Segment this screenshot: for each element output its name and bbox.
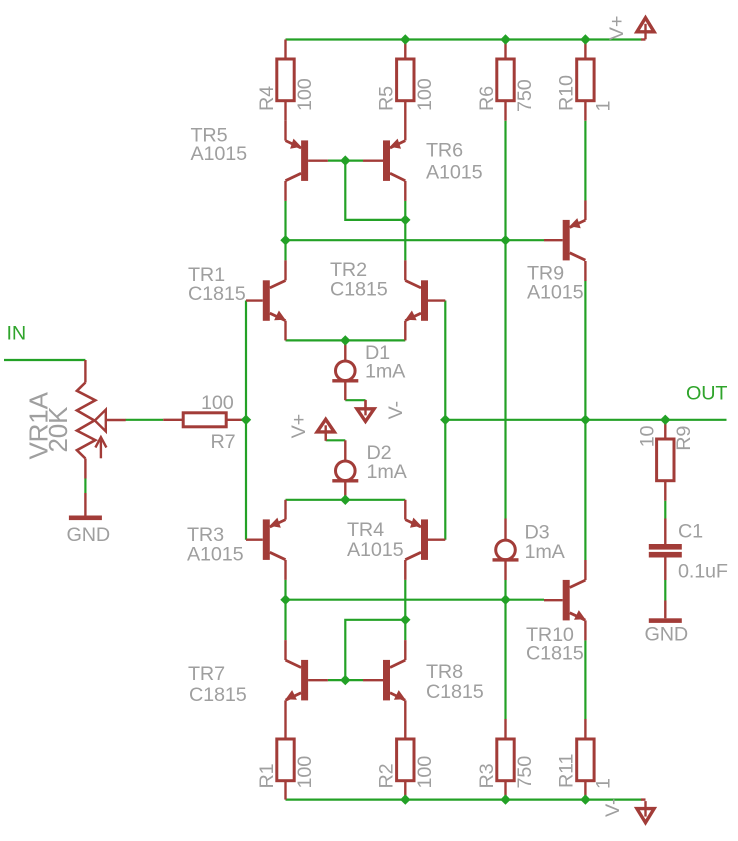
wire TR8 pins: [404, 640, 406, 739]
svg-text:R4: R4: [256, 86, 278, 111]
wire node mirror1 out to TR9 base: [286, 239, 545, 241]
potentiometer VR1A: [77, 383, 107, 459]
wire V+ mid pin: [325, 432, 327, 441]
wire R10 to TR9 emitter: [584, 121, 586, 201]
wire C1 pins: [664, 519, 666, 581]
svg-text:R3: R3: [476, 763, 498, 788]
wire TR3 TR4 emitter rail: [286, 499, 406, 501]
node D3 TR10 base: [500, 595, 510, 605]
transistor TR8: [363, 660, 405, 701]
wire V- bottom pin: [641, 798, 646, 800]
svg-text:C1815: C1815: [189, 684, 247, 706]
resistor R2: [397, 739, 414, 781]
wire R3 pins: [504, 719, 506, 800]
power V- bottom: [637, 801, 654, 823]
node OUT collectors: [580, 415, 590, 425]
wire GND right pin: [664, 601, 666, 619]
transistor TR5: [286, 139, 328, 181]
transistor TR2: [405, 280, 445, 321]
resistor R5: [397, 59, 414, 101]
node mirror2 output: [280, 595, 290, 605]
svg-text:C1815: C1815: [526, 643, 584, 665]
wire R2 bottom pin: [404, 781, 406, 800]
wire D2 pins: [344, 440, 346, 500]
wire base tie to TR8 collector: [345, 620, 405, 680]
wire TR9 collector to OUT to TR10 collector: [584, 281, 586, 560]
wire TR10 emitter to R11: [584, 640, 586, 719]
svg-text:R11: R11: [556, 753, 578, 788]
resistor R3: [497, 739, 514, 781]
wire VR1A wiper pin: [106, 419, 126, 421]
node V- R3: [500, 794, 510, 804]
power V+ mid: [317, 419, 334, 441]
svg-text:V-: V-: [385, 401, 407, 419]
power V+ top: [637, 18, 654, 40]
wire TR1 base to TR3 base: [245, 301, 247, 540]
svg-text:A1015: A1015: [347, 539, 404, 561]
ground GND right: [649, 618, 682, 623]
svg-text:1mA: 1mA: [367, 461, 408, 483]
wire TR7 pins: [284, 640, 286, 739]
node emitter rail D2: [340, 495, 350, 505]
wire TR1 TR2 emitter rail: [286, 339, 406, 341]
resistor R7: [183, 413, 226, 427]
transistor TR1: [246, 280, 286, 321]
wire TR6 collector pin: [404, 181, 406, 201]
node TR6 collector tie: [400, 215, 410, 225]
wire TR9 emitter pin: [584, 201, 586, 221]
wire TR6 collector to TR2 collector: [404, 201, 406, 261]
wire TR3 collector to TR7 collector: [284, 580, 286, 640]
resistor R10: [577, 59, 594, 101]
wire V- mid pin: [364, 400, 366, 409]
node TR5 TR6 base tie: [340, 155, 350, 165]
svg-text:10: 10: [636, 425, 658, 447]
node OUT R9: [660, 415, 670, 425]
svg-text:0.1uF: 0.1uF: [678, 561, 728, 583]
resistor R4: [277, 59, 294, 101]
node OUT feedback: [440, 415, 450, 425]
svg-text:A1015: A1015: [527, 282, 584, 304]
svg-text:100: 100: [294, 78, 316, 111]
wire TR3 pins: [284, 500, 286, 580]
svg-text:A1015: A1015: [426, 162, 483, 184]
node emitter rail D1: [340, 335, 350, 345]
svg-text:GND: GND: [67, 524, 111, 546]
wire R6 to D3: [504, 121, 506, 519]
svg-text:100: 100: [414, 756, 436, 789]
node R7 base column: [241, 415, 251, 425]
wire base tie to TR6 collector: [345, 161, 405, 220]
wire D1 pins: [344, 341, 346, 400]
power V- mid: [357, 400, 374, 422]
node TR8 collector tie: [400, 615, 410, 625]
transistor TR3: [246, 518, 286, 560]
node R6 TR9 base: [500, 235, 510, 245]
wire R10 pins: [584, 40, 586, 121]
current source D3: [493, 540, 519, 562]
svg-text:20K: 20K: [43, 406, 73, 453]
wire V+ to D2: [326, 439, 346, 441]
svg-text:1mA: 1mA: [525, 541, 566, 563]
wire TR7 base to TR8 base: [328, 679, 363, 681]
transistor TR6: [363, 139, 405, 181]
wire R7 pins: [163, 419, 246, 421]
svg-text:1: 1: [592, 778, 614, 789]
svg-text:1mA: 1mA: [365, 361, 406, 383]
wire TR9 collector pin: [584, 261, 586, 281]
svg-text:TR6: TR6: [426, 139, 463, 161]
wire D3 pins: [504, 519, 506, 581]
wire IN to VR1A: [4, 359, 85, 361]
svg-text:100: 100: [294, 756, 316, 789]
wire V- bottom rail: [286, 798, 642, 800]
wire R4 pins: [284, 40, 286, 121]
svg-text:IN: IN: [7, 323, 26, 345]
svg-text:1: 1: [592, 101, 614, 112]
svg-text:R5: R5: [376, 86, 398, 111]
node mirror1 output: [280, 235, 290, 245]
resistor R11: [577, 739, 594, 781]
wire VR1A top pin: [84, 360, 86, 383]
wire OUT rail: [445, 419, 726, 421]
wire TR4 pins: [404, 500, 406, 580]
wire R6 pins: [504, 40, 506, 121]
resistor R1: [277, 739, 294, 781]
wire R11 pins: [584, 719, 586, 800]
wire GND left pin: [84, 493, 86, 516]
wire TR5 base to TR6 base: [328, 160, 363, 162]
svg-text:GND: GND: [645, 624, 689, 646]
node V- R11: [580, 794, 590, 804]
wire VR1A bottom pin: [84, 459, 86, 479]
capacitor C1: [649, 544, 682, 558]
svg-text:A1015: A1015: [187, 544, 244, 566]
svg-text:R7: R7: [211, 431, 236, 453]
wire TR5 collector to TR1 collector: [284, 201, 286, 261]
wire C1 to GND: [664, 580, 666, 601]
svg-text:R6: R6: [476, 86, 498, 111]
svg-text:A1015: A1015: [191, 143, 248, 165]
transistor TR10: [544, 580, 585, 621]
svg-text:750: 750: [514, 79, 536, 112]
svg-text:C1815: C1815: [188, 283, 246, 305]
wire TR2 base to TR4 base: [444, 301, 446, 540]
wire D1 to V-: [345, 399, 365, 401]
wire VR1A to GND: [84, 479, 86, 494]
current source D1: [332, 361, 358, 383]
svg-text:C1815: C1815: [426, 681, 484, 703]
svg-text:TR7: TR7: [188, 663, 225, 685]
wire TR5 collector pin: [284, 181, 286, 201]
svg-text:750: 750: [514, 756, 536, 789]
svg-text:100: 100: [201, 392, 234, 414]
node V+ R6: [500, 34, 510, 44]
svg-text:C1815: C1815: [330, 279, 388, 301]
resistor R6: [497, 59, 514, 101]
transistor TR7: [286, 660, 328, 701]
transistor TR4: [405, 518, 445, 560]
svg-text:C1: C1: [678, 521, 703, 543]
wire R9 pins: [664, 420, 666, 501]
wire TR2 pins: [404, 260, 406, 340]
wire V+ top pin: [641, 38, 646, 40]
ground GND left: [69, 516, 102, 521]
wire TR4 collector to TR8 collector: [404, 580, 406, 640]
node V+ R5: [400, 34, 410, 44]
wire V+ top rail: [286, 38, 642, 40]
wire VR1A wiper to R7: [126, 419, 164, 421]
transistor TR9: [544, 218, 585, 260]
wire TR5 emitter pin: [284, 121, 286, 141]
wire TR1 pins: [284, 260, 286, 340]
current source D2: [332, 461, 358, 483]
node V+ R10: [580, 34, 590, 44]
svg-text:V+: V+: [288, 414, 310, 438]
svg-text:V+: V+: [606, 16, 628, 40]
svg-text:TR8: TR8: [426, 661, 463, 683]
svg-text:R10: R10: [556, 75, 578, 111]
svg-text:R1: R1: [256, 763, 278, 788]
wire TR10 pins: [584, 560, 586, 640]
wire node mirror2 out to TR10 base: [286, 599, 545, 601]
svg-text:100: 100: [414, 78, 436, 111]
wire D3 to R3: [504, 580, 506, 719]
svg-text:R2: R2: [376, 764, 398, 789]
wire R9 to C1: [664, 501, 666, 519]
node TR7 TR8 base tie: [340, 675, 350, 685]
svg-text:V-: V-: [602, 799, 624, 817]
svg-text:TR4: TR4: [347, 519, 384, 541]
resistor R9: [657, 439, 674, 481]
wire R1 bottom pin: [284, 781, 286, 800]
svg-text:OUT: OUT: [686, 383, 727, 405]
svg-text:R9: R9: [673, 426, 695, 451]
node V- R2: [400, 794, 410, 804]
wire R5 pins: [404, 40, 406, 141]
